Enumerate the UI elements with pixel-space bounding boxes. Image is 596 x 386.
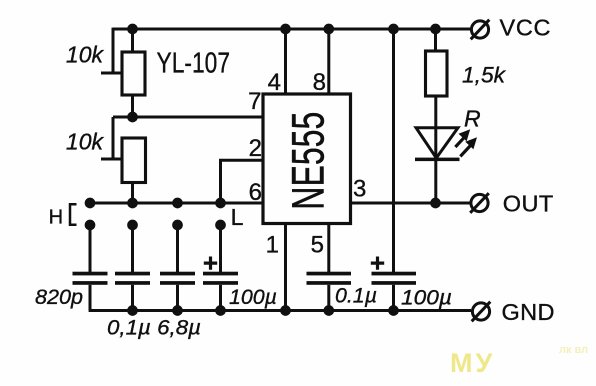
junction dot: LED on output line [430,198,441,209]
LED D1 cathode bar [415,158,460,162]
terminal GND [472,302,491,322]
capacitor C3 6,8u plates [160,272,195,285]
svg-text:10k: 10k [66,42,105,68]
svg-text:лк вл: лк вл [559,344,588,356]
wire: pin 7 line from pot node to NE555 [113,116,263,119]
svg-text:OUT: OUT [503,190,554,216]
wire: pin 2 branch to selector bus [221,160,264,203]
junction dot: C5 on ground rail [323,305,334,316]
junction dot: C2 on ground rail [127,305,138,316]
svg-text:YL-107: YL-107 [157,48,231,80]
junction dot: pin4 on VCC rail [280,24,291,35]
junction dot: C6 branch on VCC rail [388,24,399,35]
svg-text:100µ: 100µ [229,285,277,309]
resistor R3 1,5k body [426,51,448,96]
LED light arrow 2 [459,137,477,157]
svg-text:3: 3 [353,176,366,203]
terminal OUT [470,193,489,213]
wire: riser from rail to R1 wiper [112,28,115,73]
svg-text:10k: 10k [66,129,105,155]
node: selector top contact L on bus [215,198,226,209]
junction dot: pin1 on ground rail [280,305,291,316]
wire: C1 top lead [89,225,92,272]
svg-text:1,5k: 1,5k [462,63,506,88]
wire: C3 top lead [176,225,179,272]
node: selector bottom contact of C2 [127,220,138,231]
IC U1 NE555 body [263,94,351,224]
wire: C5 bottom lead [327,285,330,311]
node: selector top contact H on bus [85,198,96,209]
junction dot: R3 top on VCC rail [430,24,441,35]
junction dot: R1/R2/pin7 node [127,112,138,123]
wire: C2 top lead [131,225,134,272]
junction dot: C4 on ground rail [215,305,226,316]
junction dot: C6 on ground rail [388,305,399,316]
node: selector bottom contact of C1 [85,220,96,231]
svg-text:1: 1 [266,231,279,258]
wire: R3 to LED and LED cathode to output line [434,96,437,203]
polarity plus of C4 [204,257,217,270]
junction dot: R1 top on VCC rail [127,24,138,35]
wire: C4 top lead [219,225,222,272]
junction dot: C3 on ground rail [172,305,183,316]
wire: top VCC rail [113,28,470,31]
terminal VCC [471,20,490,40]
svg-text:820p: 820p [35,286,83,309]
junction dot: pin8 on VCC rail [323,24,334,35]
wire: C3 bottom lead [176,285,179,311]
svg-text:7: 7 [248,88,261,115]
wire: C6 bottom lead [392,285,395,311]
wire: C2 bottom lead [131,285,134,311]
wire: pin 3 output line [351,202,470,205]
wire: pin 4 to VCC rail [284,29,287,94]
svg-text:NE555: NE555 [283,112,333,210]
LED D1 triangle [416,128,458,158]
capacitor C6 100u plates [372,272,417,285]
capacitor C4 100u plates [203,272,238,285]
wire: riser from pin7 line to R2 wiper [112,117,115,159]
potentiometer R1 10k body [122,52,145,95]
svg-text:0,1µ 6,8µ: 0,1µ 6,8µ [107,316,201,340]
wiper of R1 [101,72,122,75]
selector bracket H [70,204,77,225]
wire: R2 bottom lead to selector bus [131,183,134,204]
svg-text:VCC: VCC [500,14,552,40]
wire: pin 1 to ground rail [284,224,287,311]
svg-text:МУ: МУ [450,348,495,378]
svg-text:GND: GND [502,299,555,325]
wire: C4 bottom lead [219,285,222,311]
svg-text:4: 4 [268,69,281,96]
potentiometer R2 10k body [122,138,146,183]
capacitor C5 0.1u plates [307,272,352,285]
svg-text:100µ: 100µ [401,286,452,310]
LED light arrow 1 [454,129,470,148]
svg-text:L: L [231,204,244,230]
wire: R3 top lead [434,29,437,51]
node: selector top contact 3 on bus [172,198,183,209]
polarity plus of C6 [371,257,384,270]
svg-text:R: R [464,106,481,132]
node: selector bottom contact of C3 [172,220,183,231]
wire: R1 top lead [131,29,134,52]
wire: VCC branch to C6 crossing output line [392,29,395,272]
svg-text:5: 5 [311,231,324,258]
svg-text:0.1µ: 0.1µ [335,284,377,308]
wire: C1 bottom lead [89,285,92,311]
wire: pin 5 lead to C5 [327,224,330,273]
wire: ground rail [89,309,471,312]
svg-text:8: 8 [313,69,326,96]
svg-text:H: H [49,206,63,228]
wire: pin 8 to VCC rail [327,29,330,94]
wiper of R2 [101,158,122,161]
node: selector bottom contact of C4 [215,220,226,231]
wire: R1 bottom lead [131,95,134,117]
capacitor C2 0,1u plates [115,272,150,285]
wire: pin 6 selector bus [90,202,263,205]
svg-text:6: 6 [249,179,262,206]
svg-text:2: 2 [249,135,262,162]
capacitor C1 820p plates [73,272,108,285]
node: selector top contact 2 on bus [127,198,138,209]
